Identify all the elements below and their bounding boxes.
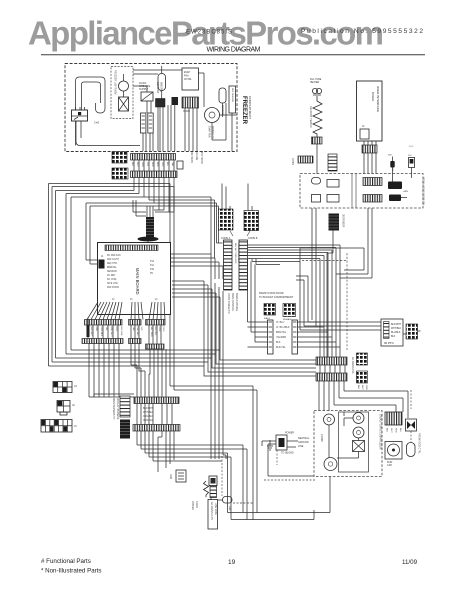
svg-text:BLU BLK: BLU BLK [120,327,122,337]
svg-text:DEFROST HEATER: DEFROST HEATER [309,106,312,128]
fresh food door dashed enclosure [300,174,423,209]
J4 connector grid left [53,382,77,393]
svg-text:WIRING DIAGRAM: WIRING DIAGRAM [207,47,261,54]
black grid connector CONN B [244,211,259,241]
nite lite relay [139,82,153,101]
vertical ladder connector left [224,240,233,290]
splayed wires board to lower strips [87,302,165,320]
svg-text:YEL: YEL [146,162,148,167]
svg-text:WHT/BLK: WHT/BLK [143,412,154,414]
svg-text:CONN B: CONN B [248,237,258,240]
wires row2 strips down to mid strip [89,344,134,398]
compressor internal wires [329,412,359,458]
run capacitor hatched block [385,412,402,434]
title rule [41,54,425,56]
lower mating strip row2 a [82,339,123,344]
vertical hatched strip above door box [328,154,337,171]
compressor terminal circle 3 [353,427,364,438]
svg-text:EVAP FAN: EVAP FAN [208,126,211,138]
door black component upper [388,163,402,189]
board lower connector strip P3 [146,320,166,326]
door oval lamp [312,178,321,185]
svg-text:RED: RED [151,162,153,167]
svg-text:GRY: GRY [161,162,163,167]
evap fan connector strip [182,97,199,113]
ice fill tube heater icon [310,79,322,95]
svg-text:RED: RED [95,327,97,332]
defrost bimetal thermostat [156,82,166,107]
svg-text:HEATER: HEATER [310,81,319,84]
svg-text:MOTOR DC: MOTOR DC [211,126,214,139]
door black component lower [389,191,408,201]
ground symbol [267,440,273,450]
dispenser dark block below door box [329,214,344,231]
label power cord bottom [191,501,198,510]
evaporator fan motor M [205,108,220,140]
small inline component bottom-left [169,470,186,482]
black grid connector top A [112,152,127,164]
svg-text:EW23BC85IS: EW23BC85IS [186,30,232,36]
defrost sensor tall box [229,86,236,113]
svg-text:AC MAINS FLTR: AC MAINS FLTR [210,502,213,520]
AC mains strip lower [316,373,347,381]
svg-text:* Non-Illustrated Parts: * Non-Illustrated Parts [41,568,102,575]
svg-text:FREEZER LIGHT ASM: FREEZER LIGHT ASM [114,70,117,95]
J1 connector grid left [41,420,77,433]
dashed drop right column [410,390,412,443]
mid connector strip lower [133,425,180,432]
svg-text:DEFROST: DEFROST [156,82,159,94]
svg-text:WHT: WHT [390,428,392,434]
svg-text:AC MAINS TML: AC MAINS TML [351,357,354,375]
strip interconnect stubs AC [320,365,345,373]
label main harness [112,398,119,420]
svg-text:BLK WHT: BLK WHT [90,327,92,337]
svg-text:LINE: LINE [298,445,304,448]
door lower rect [312,195,321,203]
connector pair molex [141,113,154,133]
defrost heater tube [158,66,166,91]
svg-text:PNK WHT: PNK WHT [136,327,138,338]
svg-text:ORG: ORG [141,162,143,167]
compressor terminal circle 2 [353,413,364,424]
wire drops from freezer strips [134,160,174,206]
svg-text:GRILLE: GRILLE [391,163,393,172]
dashed sense line [221,456,223,496]
J2 connector grid left [57,401,75,416]
labels under mid strip [143,408,154,422]
svg-text:DC COM: DC COM [107,279,116,281]
wires entering main board top [133,200,174,245]
svg-text:FRZ DOOR: FRZ DOOR [107,287,119,289]
line fuse box [209,476,217,486]
filter hatch connector [210,486,217,498]
svg-text:YEL/BRN: YEL/BRN [276,336,287,339]
svg-text:CAP: CAP [228,506,231,511]
strip above door box [291,156,313,165]
svg-text:POWER: POWER [285,432,294,435]
svg-text:LT. BLU: LT. BLU [276,321,285,324]
main board pin labels left column [107,254,121,289]
svg-text:GRN/YEL: GRN/YEL [143,420,154,422]
svg-text:MAIN BOARD: MAIN BOARD [135,268,140,295]
label fresh food door to bucket [259,292,294,299]
label from triage to main board [227,293,238,314]
vertical striped connector mid-left [120,396,130,417]
svg-text:WHT: WHT [361,385,363,391]
black grid connector PTC [403,324,421,339]
svg-text:MAIN CONTROL: MAIN CONTROL [231,293,234,312]
evap fan control box [182,68,199,90]
svg-text:ORG BLK: ORG BLK [100,327,102,337]
svg-text:19: 19 [228,559,236,566]
svg-text:ID PTC: ID PTC [384,341,395,345]
ladder center labels [234,243,239,264]
svg-text:DEF HTR: DEF HTR [107,263,117,265]
run capacitor round component [385,442,402,468]
black grid connector CONN A [219,209,234,240]
freezer compartment dashed enclosure [65,64,237,152]
svg-text:GRY: GRY [115,327,117,332]
svg-text:VIO: VIO [140,327,142,331]
svg-text:BLK/WHT: BLK/WHT [143,408,154,410]
svg-text:GRN: GRN [158,327,160,332]
svg-text:LINE FUSE: LINE FUSE [214,503,216,515]
door component mid lower [327,195,339,203]
door hatched strip upper [363,178,382,186]
black grid connector AC lower [357,371,368,391]
svg-text:SW: SW [388,155,392,157]
svg-text:SENSOR: SENSOR [107,271,117,273]
svg-text:11/09: 11/09 [402,559,418,566]
compressor overload box [353,441,365,452]
svg-text:BOARD WIRING: BOARD WIRING [235,293,238,311]
wires bus into grid connectors [222,184,252,211]
door hatched strip lower [363,195,382,203]
freezer light lamp L1 [119,97,129,111]
black grid connector FF right [283,304,296,322]
svg-text:CONN A: CONN A [221,237,231,240]
svg-text:CAP: CAP [387,464,392,467]
svg-text:TAN: TAN [171,162,174,167]
svg-text:ORG: ORG [162,327,164,332]
svg-text:CNTRL: CNTRL [184,79,192,81]
labels under row2 [90,327,164,338]
svg-text:YEL: YEL [105,327,107,332]
svg-text:J10: J10 [408,155,412,157]
svg-text:CORD: CORD [195,501,198,508]
capsule component right column [407,433,420,457]
AC line filter tall box [208,500,218,530]
wires board right to ladders [171,254,224,400]
compressor terminal circle 1 [324,414,335,425]
lower mating strip row2 c [146,344,165,349]
svg-text:BLU/BLK: BLU/BLK [391,332,401,334]
wire color list between pin bars [276,321,290,349]
mid connector strip upper [134,397,179,404]
svg-text:FROM FOOD CTRL: FROM FOOD CTRL [418,433,420,454]
svg-text:COMPARTMENT: COMPARTMENT [248,96,252,119]
svg-text:ORG/BLK: ORG/BLK [143,416,154,418]
freezer light thermostat circle [119,74,129,97]
svg-text:CEILING: CEILING [195,151,197,160]
wires inside freezer to bottom [133,70,237,151]
svg-text:TAN: TAN [132,327,135,332]
svg-text:MAIN HARNESS TO: MAIN HARNESS TO [112,398,115,419]
svg-text:FROM TRIAGE TO: FROM TRIAGE TO [227,293,230,314]
svg-text:BLK: BLK [391,336,396,338]
nested elbow wires to AC strips [172,281,316,376]
svg-text:J2: J2 [72,403,75,407]
door plunger icon P [408,146,415,178]
board lower connector strip P2 [129,320,142,326]
AC mains strip upper [316,357,347,365]
defrost heater zigzag resistor [309,96,322,137]
svg-text:BRN: BRN [156,162,158,167]
main board pin labels right column [112,261,158,301]
svg-text:NEUTRAL: NEUTRAL [298,437,310,440]
svg-text:FRESH FOOD DOOR SW: FRESH FOOD DOOR SW [421,177,424,206]
svg-text:USER INTERFACE: USER INTERFACE [376,86,380,112]
wires below door box [300,208,372,357]
svg-text:BLK WHT RED ORG: BLK WHT RED ORG [234,243,236,264]
svg-text:# Functional Parts: # Functional Parts [41,558,91,565]
main control board U1 [98,243,171,315]
svg-text:FRESH FOOD DOOR: FRESH FOOD DOOR [259,292,284,295]
board lower connector strip P1 [85,320,123,326]
compressor dashed enclosure [314,411,382,477]
svg-text:BLK/WHT: BLK/WHT [391,324,402,326]
svg-text:BIMETAL: BIMETAL [107,266,117,269]
svg-text:NITE LITE: NITE LITE [107,283,118,285]
cable bundle block above main board [138,217,159,241]
svg-text:BLK/YEL: BLK/YEL [276,346,286,349]
svg-text:STEADY STATE COMPRESSOR: STEADY STATE COMPRESSOR [379,414,382,450]
wires AC strips down to compressor [319,381,408,418]
svg-text:YEL BRN GRY BLU: YEL BRN GRY BLU [237,243,239,263]
freezer harness connector strip J5 [131,154,176,161]
svg-text:J4: J4 [74,384,77,388]
svg-text:AC RET: AC RET [107,274,116,277]
svg-text:BLU: BLU [399,428,401,433]
wire color labels between strips [131,162,174,168]
AC strips label [351,357,354,375]
svg-text:FAN: FAN [184,75,189,78]
svg-text:J1: J1 [74,424,77,428]
vertical pin bar right [292,320,298,354]
wires into pin bars [248,259,341,358]
svg-text:DISPENSER: DISPENSER [342,214,344,228]
svg-text:DEF SENSOR: DEF SENSOR [231,88,233,103]
svg-text:BOARD: BOARD [371,92,375,101]
svg-text:GROUND: GROUND [298,441,309,444]
wires from mid strips [88,319,172,425]
dark block connector mid-left [120,420,130,439]
svg-text:GND: GND [169,474,171,479]
svg-text:P12: P12 [150,261,155,263]
black grid connector top B [112,168,128,179]
svg-text:1 0 1: 1 0 1 [409,146,415,148]
label FREEZER COMPARTMENT [241,96,252,125]
ID PTC box [381,319,403,346]
freezer harness connector strip J6 [131,171,178,178]
surge resistor zigzag [204,481,209,497]
svg-text:POWER: POWER [191,501,194,510]
svg-text:RED: RED [395,428,397,433]
wires below lower mid strip [137,400,247,520]
door switch icon S [388,155,395,182]
svg-text:DISPLAY HARNESS: DISPLAY HARNESS [116,398,119,420]
svg-text:FRZ HARN: FRZ HARN [190,151,193,163]
horizontal bus wires upper [49,184,258,521]
svg-text:CONN: CONN [291,158,293,165]
freezer thermistor [219,88,226,115]
svg-text:WHT/BLK: WHT/BLK [391,328,402,330]
svg-text:BLK: BLK [131,162,133,167]
small box right of strips [177,151,203,169]
defrost heater connector [312,137,323,174]
wires to PTC [296,276,381,330]
black grid connector AC upper [357,353,368,365]
wire loop freezer light circuit [76,77,141,146]
svg-text:COMP: COMP [320,434,324,442]
bowtie connector [406,419,417,431]
svg-text:LT. BLU/BLK: LT. BLU/BLK [276,326,290,329]
compressor terminal circle 4 [324,458,337,471]
freezer door light switch SW1 [72,107,88,121]
svg-text:BRN/YEL: BRN/YEL [276,331,287,334]
svg-text:MALE: MALE [264,317,270,320]
wires power cord [262,441,314,476]
svg-text:BLK: BLK [276,341,281,344]
svg-text:TO (E)GND: TO (E)GND [281,452,294,455]
small connector plug [172,97,179,105]
UI board connector strip [362,141,377,174]
vertical pin bar left [268,320,274,354]
door enclosure label [421,177,424,206]
harness wire bundle right of ladder [248,245,340,259]
svg-text:BLU: BLU [166,162,168,167]
strip interconnect stubs [88,325,161,344]
lower mating strip row2 b [129,339,142,344]
bottom horizontal wires [211,477,330,520]
svg-text:BLK: BLK [357,385,359,390]
svg-text:GRN: GRN [365,385,367,390]
freezer light dashed sub-enclosure [111,67,133,119]
svg-text:FRZ LIGHT: FRZ LIGHT [107,259,119,261]
svg-text:FEMALE: FEMALE [283,318,292,321]
user interface board [357,81,383,141]
door component mid upper [327,180,339,188]
harness bundle vertical drops [252,245,340,347]
left nested loop wires [49,184,221,367]
svg-text:WHT: WHT [136,162,138,168]
svg-text:GRN: GRN [403,191,408,193]
black grid connector FF left [264,304,276,321]
svg-text:BRN WHT: BRN WHT [110,327,112,338]
svg-text:P10: P10 [150,269,155,271]
label freezer light switch [94,121,100,125]
svg-text:FILL TUBE: FILL TUBE [310,79,322,81]
vertical ladder connector right [239,240,248,290]
svg-text:FREEZER: FREEZER [241,96,247,125]
svg-text:EVAP: EVAP [184,71,190,74]
svg-text:TO BUCKET COMPARTMENT: TO BUCKET COMPARTMENT [259,296,294,299]
power cord plug [276,432,310,455]
small box right of filter [223,497,233,512]
svg-text:WHT RED: WHT RED [150,327,152,338]
svg-text:DC FRZ FAN: DC FRZ FAN [107,254,121,257]
svg-text:3 #2: 3 #2 [94,121,100,125]
svg-text:BLK: BLK [386,428,388,433]
svg-text:BLK YEL: BLK YEL [154,327,156,337]
svg-text:DISP HARN: DISP HARN [200,151,203,164]
